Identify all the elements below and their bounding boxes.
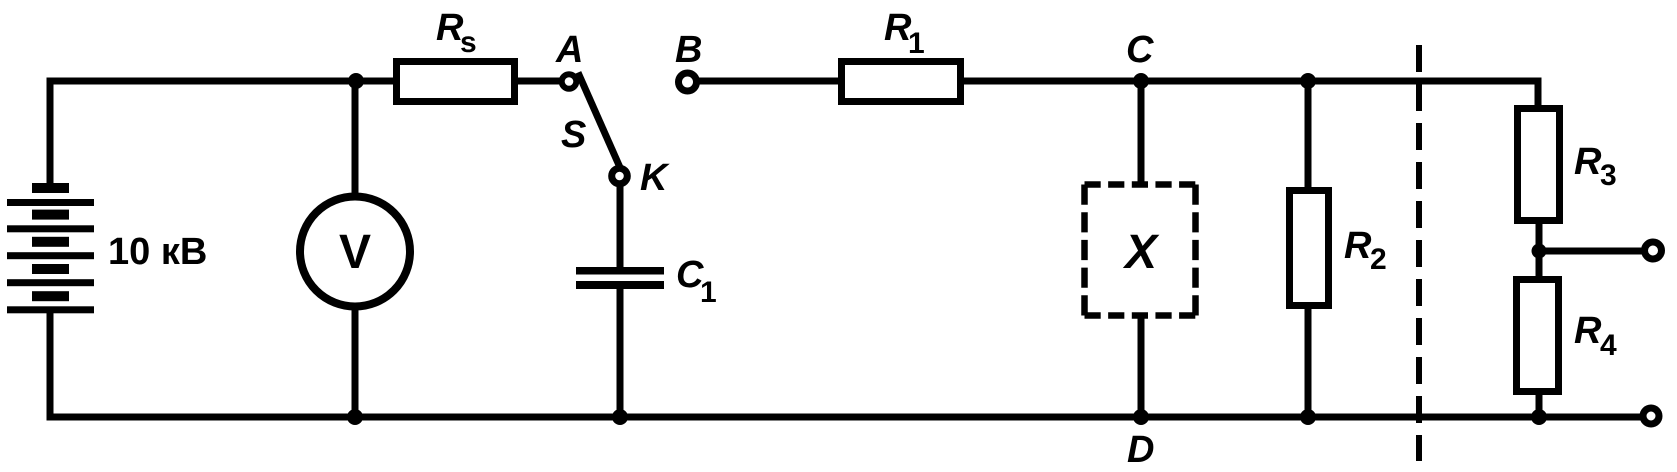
svg-text:R: R <box>1574 141 1602 183</box>
svg-text:s: s <box>460 26 477 59</box>
svg-text:S: S <box>561 114 586 156</box>
svg-text:2: 2 <box>1370 243 1387 276</box>
svg-text:1: 1 <box>908 27 925 60</box>
svg-text:B: B <box>675 29 702 71</box>
svg-text:D: D <box>1127 429 1154 471</box>
svg-text:R: R <box>1344 225 1372 267</box>
svg-text:K: K <box>640 157 670 199</box>
svg-text:C: C <box>1126 29 1154 71</box>
svg-text:A: A <box>555 29 583 71</box>
svg-text:10 кВ: 10 кВ <box>108 231 207 273</box>
svg-text:4: 4 <box>1600 329 1617 362</box>
svg-text:3: 3 <box>1600 159 1617 192</box>
svg-text:X: X <box>1122 226 1160 279</box>
svg-text:1: 1 <box>700 276 717 309</box>
svg-text:R: R <box>1574 310 1602 352</box>
svg-text:V: V <box>339 226 371 279</box>
